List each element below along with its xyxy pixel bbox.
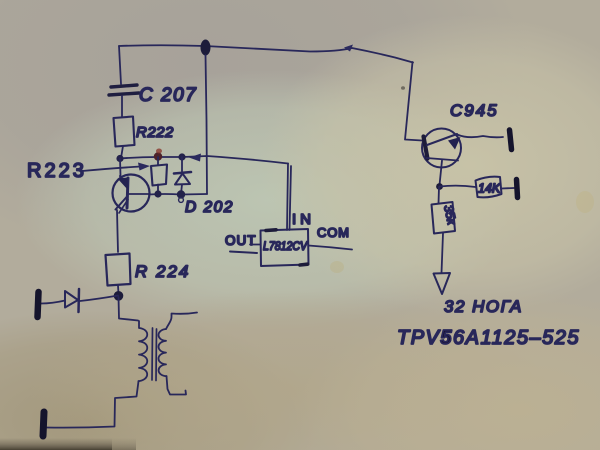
svg-text:32 НОГА: 32 НОГА xyxy=(444,297,523,316)
arrow to pin 32 xyxy=(434,273,451,294)
wire 35K down xyxy=(442,234,444,274)
resistor box below rail (R223 body) xyxy=(151,157,167,194)
node junction at 182 xyxy=(178,153,185,160)
wire R222 to rail xyxy=(121,146,123,158)
wire junction to diode xyxy=(80,296,118,302)
node junction at 120 xyxy=(116,155,123,162)
resistor 35K xyxy=(432,202,456,234)
svg-text:14K: 14K xyxy=(478,182,501,196)
node junction at 158,194 xyxy=(154,190,161,197)
node top junction xyxy=(201,40,211,56)
wire top rail xyxy=(119,45,413,62)
wire OUT underline xyxy=(230,252,257,254)
capacitor C207 xyxy=(109,85,139,117)
node junction dot xyxy=(114,291,124,301)
wire secondary top lead xyxy=(166,313,197,330)
wire R223 rail xyxy=(120,156,288,164)
resistor R222 xyxy=(114,117,135,147)
terminal collector xyxy=(510,130,512,150)
wire junction down to 35K xyxy=(438,187,441,204)
terminal right of 14K xyxy=(517,180,518,198)
svg-text:R 224: R 224 xyxy=(135,262,190,281)
wire COM pin xyxy=(309,246,353,250)
svg-text:C 207: C 207 xyxy=(139,85,197,106)
svg-text:D 202: D 202 xyxy=(185,199,234,216)
node junction at 181,195 xyxy=(177,190,185,198)
transistor C945 xyxy=(422,129,461,186)
svg-text:R223: R223 xyxy=(27,160,87,182)
svg-text:TPV56A1125–525: TPV56A1125–525 xyxy=(397,327,580,349)
terminal bottom left xyxy=(43,412,44,436)
resistor R224 xyxy=(106,254,131,286)
wire secondary bottom lead xyxy=(167,376,187,394)
wire rail to transistor emitter xyxy=(119,159,122,176)
svg-text:R222: R222 xyxy=(136,124,174,141)
terminal left xyxy=(38,292,39,317)
transformer primary winding xyxy=(139,321,148,381)
node junction at 158 (reddish) xyxy=(154,152,162,160)
node emitter junction xyxy=(436,183,443,190)
wire OUT pin xyxy=(250,244,260,246)
svg-text:COM: COM xyxy=(317,225,350,240)
resistor 14K xyxy=(476,177,502,198)
wire left branch down to C207 xyxy=(119,46,121,84)
arrow on rail pointing left xyxy=(189,154,201,162)
svg-text:IN: IN xyxy=(292,211,315,228)
wire junction to 14K xyxy=(440,186,476,187)
diode left (unlabeled) xyxy=(41,289,79,312)
diode D202 (zener) xyxy=(174,157,191,194)
wire bottom line of sub-circuit xyxy=(149,193,207,196)
svg-text:C945: C945 xyxy=(450,101,499,120)
wire vertical from top junction down xyxy=(206,55,208,194)
wire R223 pointer arrow xyxy=(82,167,141,172)
wire transistor collector down xyxy=(117,210,118,252)
regulator U1 L7812CV xyxy=(261,229,309,266)
svg-text:L7812CV: L7812CV xyxy=(263,239,308,253)
wire primary bottom lead xyxy=(46,381,139,427)
transformer secondary winding xyxy=(159,329,167,376)
transformer core xyxy=(151,328,154,380)
transistor V (PNP left) xyxy=(113,175,151,214)
svg-text:OUT: OUT xyxy=(225,233,257,248)
wire junction down to transformer xyxy=(119,297,139,321)
wire collector to terminal xyxy=(457,135,503,138)
wire 14K to terminal xyxy=(502,187,515,190)
wire rail to regulator IN (double stroke) xyxy=(287,164,288,231)
wire R224 to junction xyxy=(117,286,120,295)
wire top rail down to C945 base xyxy=(405,62,422,141)
